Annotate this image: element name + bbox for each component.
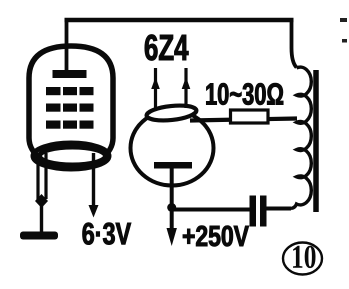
label 6Z4 (145, 35, 189, 61)
tube V1 plate bar (53, 70, 87, 78)
wire right vertical from top wire to coil L1 (292, 18, 297, 68)
label +250V (183, 226, 249, 247)
ground (20, 232, 58, 240)
wire V1 cathode lead right of pair (44, 153, 47, 199)
label 10~30 ohm (206, 83, 283, 105)
junction dot A (35, 194, 48, 208)
wire left vertical from top wire to V1 plate (65, 20, 69, 74)
tube V2 cathode bar (154, 162, 192, 169)
wire capacitor C1 to coil bottom (267, 207, 292, 211)
figure number 10 circled (283, 243, 322, 275)
resistor R1 (231, 110, 269, 123)
inductor core bar (313, 70, 319, 212)
wire V2 to resistor R1 and to coil tap (190, 119, 297, 121)
wire V1 heater lead with arrow (92, 153, 95, 206)
tube V1 envelope (29, 46, 113, 168)
tube V1 grid row 2 (46, 104, 94, 112)
tube V2 filament ellipse (146, 103, 197, 122)
wire V2 cathode lead down (170, 166, 174, 207)
scan speck top right (340, 18, 347, 22)
wire V2 filament lead right with up arrow (184, 68, 187, 108)
wire V1 cathode lead left (36, 153, 39, 200)
wire junction B to capacitor C1 (172, 208, 250, 212)
label 6.3V (83, 223, 131, 245)
wire V2 filament lead left with up arrow (154, 68, 157, 108)
wire top horizontal (65, 18, 294, 23)
tube V1 base rim ellipse (33, 143, 109, 169)
tube V1 base lens ellipse (40, 147, 106, 165)
tube V1 grid row 1 (46, 87, 94, 95)
inductor L1 coil (291, 67, 311, 208)
junction dot B (167, 203, 176, 212)
arrowhead 6.3V (89, 205, 99, 218)
wire junction A to ground (40, 201, 43, 232)
tube V1 grid row 3 (46, 121, 94, 129)
capacitor C1 (250, 196, 257, 227)
wire junction B down with arrow +250V (170, 207, 174, 229)
tube V2 envelope (131, 111, 214, 186)
